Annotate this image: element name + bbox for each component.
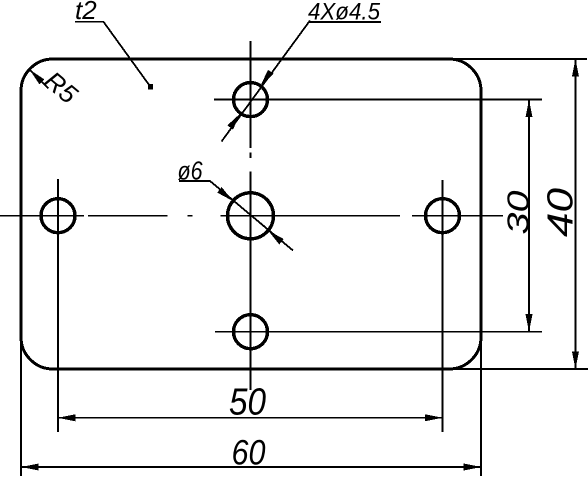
svg-text:4Xø4.5: 4Xø4.5 <box>308 0 381 26</box>
svg-text:t2: t2 <box>75 0 97 25</box>
svg-text:ø6: ø6 <box>178 156 203 186</box>
svg-text:40: 40 <box>540 188 581 237</box>
svg-text:30: 30 <box>501 191 536 235</box>
svg-text:50: 50 <box>229 382 266 424</box>
svg-text:60: 60 <box>232 434 266 473</box>
